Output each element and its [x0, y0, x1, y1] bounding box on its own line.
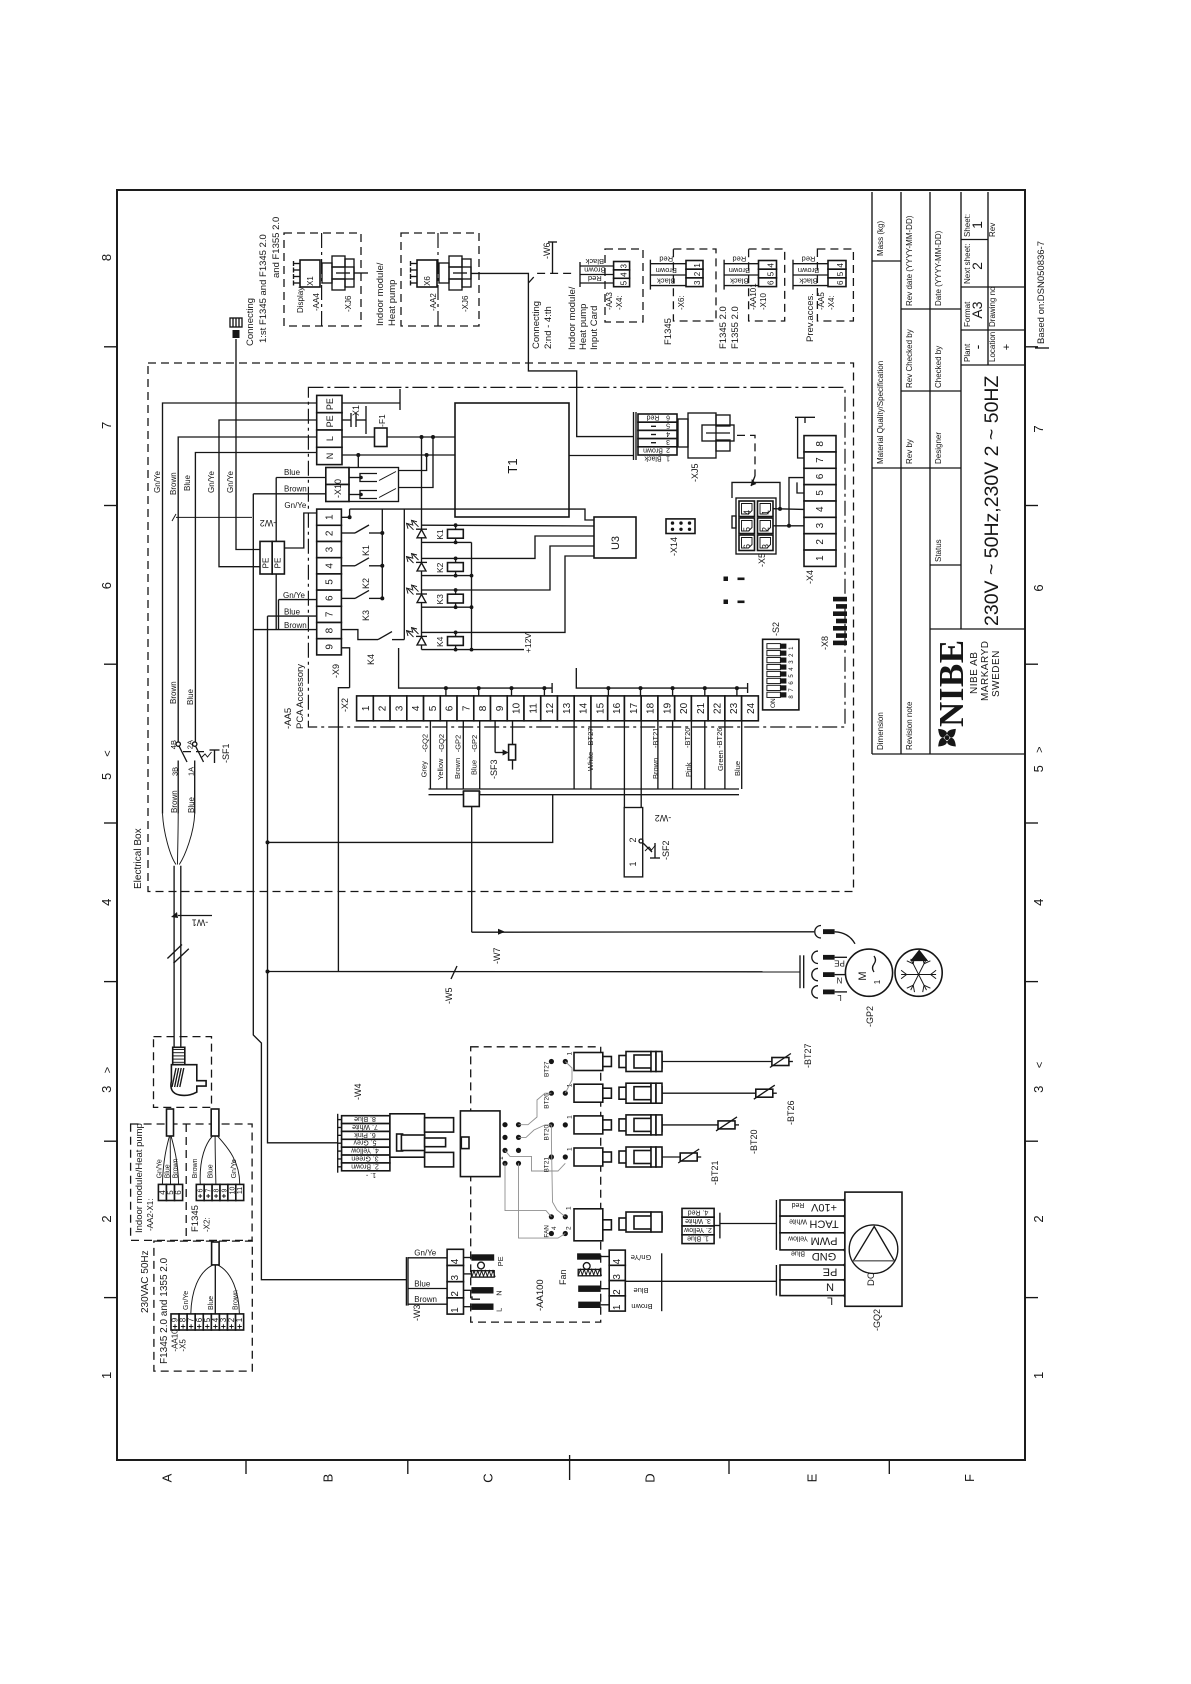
X2 upper bus right	[576, 668, 747, 696]
svg-text:-X2:: -X2:	[203, 1217, 212, 1232]
svg-text:6. Pink: 6. Pink	[354, 1131, 376, 1138]
svg-text:-BT26: -BT26	[715, 728, 724, 748]
breaker -SF1	[169, 740, 231, 814]
svg-text:F: F	[962, 1474, 977, 1482]
wire GnYe PE to X9-1	[284, 501, 316, 548]
svg-text:Heat pump: Heat pump	[387, 280, 398, 326]
svg-text:2: 2	[666, 446, 670, 453]
svg-text:2: 2	[1031, 1215, 1046, 1222]
svg-text:2: 2	[969, 262, 985, 270]
svg-text:1: 1	[873, 979, 882, 984]
W4 mating header box	[460, 1111, 500, 1177]
svg-text:Blue: Blue	[284, 468, 301, 477]
svg-text:PE: PE	[325, 398, 335, 410]
svg-text:2. Yellow: 2. Yellow	[683, 1226, 712, 1233]
svg-text:B: B	[321, 1474, 336, 1483]
terminal strip -X2	[340, 696, 758, 721]
svg-text:8: 8	[478, 705, 489, 711]
svg-text:3: 3	[99, 1086, 114, 1093]
title block cell labels	[876, 214, 1013, 750]
svg-text:Black: Black	[799, 276, 818, 285]
svg-text:Red: Red	[588, 274, 602, 283]
svg-text:Mass (kg): Mass (kg)	[876, 221, 885, 256]
svg-text:-F1: -F1	[377, 414, 387, 427]
svg-text:1: 1	[235, 1317, 244, 1322]
svg-text:6: 6	[666, 413, 670, 420]
input card connector -AA3 -XJ4	[580, 249, 643, 322]
T1 secondary wires to XJ5	[569, 455, 634, 457]
svg-text:1: 1	[969, 221, 985, 229]
FAN signal connector 4-pole	[682, 1208, 776, 1243]
mains plug	[154, 1037, 212, 1108]
svg-text:+10V: +10V	[810, 1201, 837, 1213]
svg-text:3: 3	[620, 263, 629, 268]
cable -W6 from -AA2 to XJ5	[471, 242, 634, 437]
indoor module connector box -AA2	[401, 233, 479, 326]
svg-text:K4: K4	[366, 654, 376, 665]
svg-text:Brown: Brown	[169, 681, 178, 704]
svg-text:2: 2	[693, 271, 702, 276]
svg-text:Brown: Brown	[414, 1295, 437, 1304]
svg-text:5: 5	[1031, 765, 1046, 772]
svg-text:Green: Green	[716, 750, 725, 771]
svg-text:K1: K1	[361, 545, 371, 556]
svg-text:6: 6	[815, 473, 826, 479]
relay contact K2	[341, 558, 384, 589]
svg-text:Brown: Brown	[453, 758, 462, 779]
svg-text:>: >	[1034, 746, 1046, 752]
svg-text:1: 1	[567, 1147, 574, 1151]
connector -AA101 -X5 9-pole	[171, 1242, 245, 1330]
svg-text:PE: PE	[496, 1256, 505, 1266]
svg-text:PE: PE	[325, 415, 335, 427]
F1345 2.0 connector -AA101 -X10	[718, 249, 785, 349]
fuse -F1	[342, 414, 455, 447]
svg-text:4: 4	[620, 272, 629, 277]
svg-text:-X5: -X5	[757, 553, 767, 567]
pump -GP2 motor	[845, 949, 892, 1027]
svg-text:-W2: -W2	[260, 518, 277, 528]
svg-text:5: 5	[836, 271, 845, 276]
svg-text:-W4: -W4	[353, 1084, 363, 1101]
internal harness wires	[505, 1062, 572, 1239]
svg-text:Display: Display	[296, 287, 305, 313]
svg-text:23: 23	[729, 702, 740, 714]
svg-text:6: 6	[767, 280, 776, 285]
switch -SF2	[624, 808, 671, 877]
wire GnYe to X1 PE2	[207, 420, 317, 567]
svg-text:Dimension: Dimension	[876, 712, 885, 750]
svg-text:Connecting: Connecting	[245, 298, 256, 346]
svg-text:Gn/Ye: Gn/Ye	[226, 471, 235, 493]
svg-text:A: A	[160, 1473, 175, 1482]
connecting note 1:st F1345	[245, 217, 282, 346]
svg-text:5: 5	[666, 422, 670, 429]
svg-text:5: 5	[99, 773, 114, 780]
board pin pairs	[544, 1052, 574, 1238]
svg-text:-BT20: -BT20	[749, 1129, 759, 1154]
svg-text:2: 2	[612, 1289, 623, 1295]
svg-text:-GP2: -GP2	[453, 735, 462, 753]
svg-text:Brown: Brown	[729, 266, 750, 275]
connector -XJ5	[634, 412, 735, 482]
svg-text:-X10: -X10	[759, 293, 768, 310]
F1345 connector -X6	[650, 249, 716, 345]
svg-text:-X10: -X10	[333, 479, 343, 498]
svg-text:Gn/Ye: Gn/Ye	[183, 1291, 190, 1310]
svg-text:3: 3	[761, 544, 771, 549]
svg-text:-W5: -W5	[444, 988, 454, 1005]
svg-text:N: N	[836, 976, 842, 985]
svg-text:-AA3: -AA3	[605, 292, 614, 310]
svg-text:-XJ6: -XJ6	[344, 295, 353, 312]
svg-text:-BT27: -BT27	[586, 728, 595, 748]
relay K3 coil + LED	[407, 546, 595, 609]
svg-text:6: 6	[325, 595, 336, 601]
svg-text:5: 5	[742, 527, 752, 532]
sensor BT26 socket+probe	[574, 1083, 796, 1125]
svg-text:4. Yellow: 4. Yellow	[350, 1147, 379, 1154]
pump -GP2 impeller	[895, 949, 942, 996]
svg-text:Based on:DSN050836-7: Based on:DSN050836-7	[1036, 241, 1047, 344]
svg-text:E: E	[804, 1473, 819, 1482]
wire GnYe X9-6	[279, 591, 317, 629]
svg-text:-SF1: -SF1	[221, 743, 231, 763]
svg-text:White: White	[586, 752, 595, 771]
svg-text:3. White: 3. White	[685, 1217, 711, 1224]
svg-text:Gn/Ye: Gn/Ye	[153, 471, 162, 493]
svg-text:11: 11	[237, 1187, 244, 1194]
row/column zone labels	[99, 254, 1046, 1483]
svg-text:K2: K2	[361, 578, 371, 589]
svg-text:2: 2	[815, 539, 826, 545]
svg-text:-AA5: -AA5	[283, 708, 294, 729]
svg-text:Connecting: Connecting	[531, 301, 542, 349]
wire Brown to X1 L	[169, 437, 317, 742]
svg-text:GND: GND	[812, 1250, 837, 1262]
svg-text:Blue: Blue	[470, 760, 479, 775]
svg-text:Rev: Rev	[988, 223, 997, 237]
svg-text:M: M	[857, 971, 869, 980]
svg-text:4: 4	[551, 1226, 558, 1230]
W4 header grid pins	[498, 1122, 521, 1166]
svg-text:4: 4	[325, 563, 336, 569]
svg-text:20: 20	[679, 702, 690, 714]
svg-text:A3: A3	[969, 301, 985, 318]
mains earth tag symbol	[230, 318, 242, 338]
svg-text:5: 5	[815, 490, 826, 496]
cable clamp double line	[429, 789, 740, 795]
relay contact K1	[341, 525, 384, 556]
relay LED supply bus	[421, 437, 423, 650]
wire GnYe from mains plug tag	[226, 339, 260, 550]
svg-text:X6: X6	[423, 276, 432, 286]
svg-text:F1345: F1345	[190, 1205, 201, 1232]
svg-text:Red: Red	[732, 255, 746, 264]
connector -W4	[338, 1084, 390, 1179]
svg-text:4: 4	[411, 705, 422, 711]
svg-text:Red: Red	[791, 1201, 804, 1208]
svg-text:Indoor module/: Indoor module/	[567, 286, 578, 350]
svg-text:5: 5	[428, 705, 439, 711]
svg-text:2: 2	[628, 837, 638, 842]
svg-text:-AA100: -AA100	[535, 1279, 546, 1311]
svg-text:14: 14	[579, 702, 590, 714]
230VAC 50Hz supply box	[140, 1241, 252, 1371]
transformer T1	[455, 403, 569, 517]
terminal block -X4	[804, 436, 836, 584]
relay K4 coil + LED	[407, 556, 595, 651]
X4 chassis stub	[795, 417, 815, 458]
svg-text:U3: U3	[610, 536, 622, 550]
svg-text:4: 4	[1031, 899, 1046, 906]
header -X14	[666, 519, 695, 556]
svg-text:2: 2	[761, 527, 771, 532]
svg-text:Brown: Brown	[651, 758, 660, 779]
svg-text:BT21: BT21	[544, 1157, 551, 1173]
svg-text:5. Grey: 5. Grey	[353, 1139, 376, 1146]
svg-text:Location: Location	[988, 332, 997, 362]
svg-text:1:st F1345 and F1345 2.0: 1:st F1345 and F1345 2.0	[258, 234, 269, 343]
svg-text:PWM: PWM	[811, 1234, 838, 1246]
edge connector -X8	[820, 597, 847, 650]
svg-text:Brown: Brown	[798, 266, 819, 275]
svg-text:3: 3	[612, 1274, 623, 1280]
svg-text:230VAC 50Hz: 230VAC 50Hz	[140, 1250, 151, 1313]
svg-text:Indoor module/Heat pump: Indoor module/Heat pump	[134, 1123, 145, 1233]
svg-text:5: 5	[325, 579, 336, 585]
svg-text:<: <	[102, 750, 114, 756]
fan unit box -AA100	[471, 1047, 601, 1322]
svg-text:4: 4	[767, 263, 776, 268]
svg-text:1. -: 1. -	[365, 1171, 376, 1178]
svg-text:-GQ2: -GQ2	[872, 1309, 882, 1331]
svg-text:Brown: Brown	[284, 485, 307, 494]
svg-text:+: +	[1001, 344, 1013, 350]
svg-text:1: 1	[693, 263, 702, 268]
sensor BT21 socket+probe	[574, 1147, 720, 1185]
svg-text:6: 6	[742, 544, 752, 549]
svg-text:1: 1	[612, 1304, 623, 1310]
W3 cable bars (PE N L)	[464, 1254, 506, 1312]
svg-text:<: <	[1034, 1062, 1046, 1068]
wire GnYe to X1 PE1	[153, 403, 317, 814]
svg-text:Status: Status	[934, 539, 943, 562]
svg-text:Designer: Designer	[934, 432, 943, 464]
svg-text:-BT26: -BT26	[786, 1100, 796, 1125]
svg-text:1: 1	[761, 510, 771, 515]
svg-text:2:nd - 4:th: 2:nd - 4:th	[543, 306, 554, 349]
svg-text:PCA Accessory: PCA Accessory	[295, 664, 306, 729]
svg-text:15: 15	[595, 702, 606, 714]
cable -W7 to GP2	[463, 791, 814, 964]
svg-text:-BT21: -BT21	[651, 728, 660, 748]
connector -AA2-X1 3-pole	[157, 1109, 184, 1201]
wire Brown X9-8 to -W3	[253, 494, 406, 1280]
svg-text:T1: T1	[505, 458, 520, 473]
electrical box enclosure	[133, 363, 854, 892]
mains cable -W1	[167, 866, 212, 1048]
svg-text:8: 8	[815, 441, 826, 447]
NIBE logo block	[929, 639, 1002, 755]
svg-text:4B: 4B	[169, 740, 178, 749]
svg-text:Prev.acces.: Prev.acces.	[805, 293, 816, 342]
svg-text:Black: Black	[585, 257, 604, 266]
svg-text:5: 5	[767, 271, 776, 276]
title block grid	[872, 192, 1025, 754]
svg-text:Blue: Blue	[414, 1279, 431, 1288]
relay coil return bus +12V	[472, 542, 534, 653]
svg-text:-X5: -X5	[179, 1339, 188, 1352]
svg-text:BT27: BT27	[544, 1061, 551, 1077]
svg-text:Gn/Ye: Gn/Ye	[207, 471, 216, 493]
svg-text:-GP2: -GP2	[470, 735, 479, 753]
svg-text:3: 3	[666, 438, 670, 445]
svg-text:-W6: -W6	[542, 243, 552, 260]
svg-text:7. White: 7. White	[352, 1123, 378, 1130]
svg-text:1: 1	[1031, 1372, 1046, 1379]
svg-text:L: L	[827, 1295, 833, 1307]
X9-9 stub down	[341, 648, 349, 688]
svg-text:3: 3	[815, 522, 826, 528]
svg-text:4: 4	[742, 510, 752, 515]
config jumpers	[724, 577, 745, 605]
svg-text:Red: Red	[802, 255, 816, 264]
svg-text:3: 3	[450, 1274, 461, 1280]
svg-text:4: 4	[815, 506, 826, 512]
svg-text:BT26: BT26	[544, 1093, 551, 1109]
Based on drawing number	[1035, 241, 1049, 348]
svg-text:-SF3: -SF3	[489, 759, 499, 779]
svg-text:12: 12	[545, 702, 556, 714]
svg-text:21: 21	[696, 702, 707, 714]
svg-text:3: 3	[1031, 1086, 1046, 1093]
PE stub with end bar	[342, 389, 400, 410]
X2 wire table drops (GQ2/GP2)	[420, 721, 480, 789]
cable -W5 to GP2	[266, 966, 801, 1004]
svg-text:1: 1	[325, 514, 336, 520]
connector -W3 wires	[406, 1249, 463, 1321]
PE capacitor to chassis	[342, 406, 366, 434]
svg-text:Brown: Brown	[192, 1158, 199, 1178]
svg-text:Pink: Pink	[684, 762, 693, 777]
svg-text:Revision note: Revision note	[905, 701, 914, 750]
svg-text:6: 6	[99, 582, 114, 589]
svg-text:Red: Red	[659, 255, 673, 264]
svg-text:10: 10	[512, 702, 523, 714]
svg-text:-X4:: -X4:	[615, 295, 624, 310]
svg-text:MARKARYD: MARKARYD	[980, 641, 991, 702]
sensor BT27 socket+probe	[574, 1043, 813, 1071]
svg-text:Blue: Blue	[183, 474, 192, 491]
pump -GP2 terminals	[800, 926, 855, 1003]
svg-text:-X9: -X9	[331, 664, 341, 678]
svg-text:1: 1	[450, 1307, 461, 1313]
svg-text:7: 7	[461, 705, 472, 711]
wire X2 bundle to junction	[266, 795, 553, 845]
svg-text:-AA2-X1:: -AA2-X1:	[146, 1199, 155, 1231]
pressostat -SF3	[489, 721, 516, 779]
svg-text:4: 4	[666, 430, 670, 437]
svg-text:4: 4	[836, 263, 845, 268]
PCA accessory board -AA5	[283, 387, 845, 729]
svg-text:PE: PE	[823, 1265, 838, 1277]
fan power connector 4-pole	[558, 1250, 776, 1311]
svg-text:-W1: -W1	[192, 917, 209, 927]
F1345 section label	[190, 1205, 212, 1232]
svg-text:Brown: Brown	[584, 265, 605, 274]
svg-text:230V ~ 50Hz,230V 2 ~ 50HZ: 230V ~ 50Hz,230V 2 ~ 50HZ	[981, 375, 1003, 626]
svg-text:Brown: Brown	[169, 472, 178, 495]
svg-text:K2: K2	[435, 562, 445, 573]
svg-text:Drawing no: Drawing no	[988, 286, 997, 327]
relay contact K4	[341, 630, 404, 665]
svg-text:Yellow: Yellow	[787, 1234, 808, 1241]
svg-text:White: White	[789, 1217, 807, 1224]
display connector box -AA4	[284, 233, 368, 326]
svg-text:17: 17	[629, 702, 640, 714]
svg-text:F1345 2.0: F1345 2.0	[718, 306, 729, 349]
terminal block -X9	[317, 509, 342, 678]
svg-text:-XJ5: -XJ5	[690, 463, 700, 482]
svg-text:-XJ6: -XJ6	[461, 295, 470, 312]
sensor BT20 socket+probe	[574, 1115, 759, 1154]
svg-text:9: 9	[495, 705, 506, 711]
svg-text:K4: K4	[435, 636, 445, 647]
svg-text:N: N	[325, 453, 335, 460]
svg-text:Rev date (YYYY-MM-DD): Rev date (YYYY-MM-DD)	[905, 215, 914, 306]
svg-text:Blue: Blue	[733, 761, 742, 776]
controller U3	[594, 517, 636, 558]
W4 plug body	[390, 1114, 454, 1167]
svg-text:L: L	[495, 1308, 504, 1312]
svg-text:Black: Black	[644, 455, 662, 462]
svg-text:BT20: BT20	[544, 1125, 551, 1141]
svg-text:Blue: Blue	[186, 688, 195, 705]
svg-text:-SF2: -SF2	[661, 840, 671, 860]
svg-text:-W2: -W2	[655, 813, 672, 823]
svg-text:19: 19	[662, 702, 673, 714]
svg-text:Blue: Blue	[633, 1286, 648, 1295]
svg-text:1: 1	[567, 1115, 574, 1119]
svg-text:2A: 2A	[186, 740, 195, 749]
dashed mate arrow XJ5 to X5	[737, 435, 756, 486]
svg-text:24: 24	[746, 702, 757, 714]
svg-text:2: 2	[566, 1226, 573, 1230]
relay contact K3	[341, 590, 384, 621]
svg-text:Date (YYYY-MM-DD): Date (YYYY-MM-DD)	[934, 230, 943, 306]
svg-text:Yellow: Yellow	[436, 758, 445, 780]
svg-text:PE: PE	[274, 558, 283, 569]
svg-text:Black: Black	[657, 276, 676, 285]
svg-text:+12V: +12V	[523, 633, 533, 653]
svg-text:-X4:: -X4:	[827, 295, 836, 310]
svg-text:Blue: Blue	[208, 1296, 215, 1310]
N wire X1 to T1	[342, 453, 455, 457]
relay K1 coil + LED	[407, 520, 595, 544]
svg-text:X1: X1	[306, 276, 315, 286]
svg-text:>: >	[102, 1067, 114, 1073]
svg-text:DC: DC	[866, 1272, 877, 1286]
svg-text:8: 8	[325, 627, 336, 633]
svg-text:1: 1	[567, 1052, 574, 1056]
svg-text:3: 3	[394, 705, 405, 711]
DIP switch -S2	[763, 622, 799, 710]
svg-text:Brown: Brown	[631, 1302, 652, 1311]
svg-text:2: 2	[378, 705, 389, 711]
svg-text:Blue: Blue	[208, 1164, 215, 1178]
svg-text:6: 6	[836, 280, 845, 285]
